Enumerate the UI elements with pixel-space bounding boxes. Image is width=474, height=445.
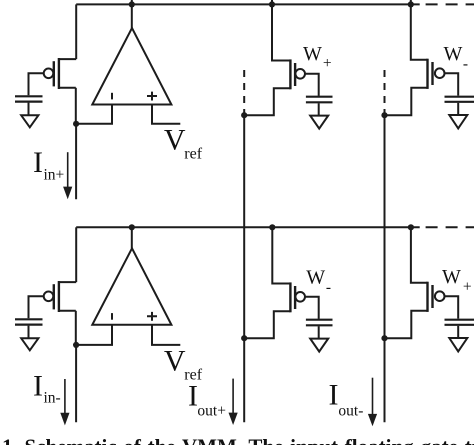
svg-text:+: + — [323, 55, 332, 72]
ground (C2) — [310, 116, 328, 129]
arrow: Iout+ current direction — [229, 379, 238, 425]
wire: Iout+ column — [243, 113, 245, 422]
wire: rail-1 dot down to W+ transistor M2 source — [272, 4, 290, 60]
arrow: Iin- current direction — [60, 379, 69, 425]
wire: C1 to ground — [28, 103, 30, 116]
wire: M2 gate to capacitor C2 — [305, 74, 319, 96]
wire: C4 to ground — [28, 326, 30, 339]
wire: U1 inverting input to node IN1 — [79, 105, 112, 124]
svg-text:-: - — [326, 279, 331, 296]
ground (C4) — [21, 338, 38, 350]
node: rail-2 junction dot (op-amp) — [129, 224, 135, 230]
node: Iout+ / M2 drain junction dot — [241, 112, 247, 118]
svg-text:V: V — [164, 124, 186, 157]
wire: row-2 rail dashed continuation — [426, 226, 474, 228]
svg-text:W: W — [303, 43, 322, 65]
wire: rail-1 to input transistor M1 source — [75, 4, 77, 59]
svg-text:out+: out+ — [197, 402, 226, 419]
node: Iout- / M3 drain junction dot — [381, 112, 387, 118]
svg-text:W: W — [444, 43, 463, 65]
arrow: Iout- current direction — [368, 378, 377, 427]
wire: Iout- column dashed top — [384, 70, 386, 113]
wire: row-1 rail dashed continuation — [426, 3, 474, 5]
wire: Iout- column — [384, 113, 386, 422]
op-amp U1 (row 1, output points up) — [92, 28, 171, 105]
svg-text:+: + — [463, 278, 472, 295]
svg-text:W: W — [306, 266, 325, 288]
ground (C5) — [310, 339, 328, 352]
capacitor C4 — [15, 319, 43, 324]
wire: M5 gate to capacitor C5 — [305, 297, 319, 319]
node: rail-1 junction dot (op-amp) — [129, 1, 135, 7]
wire: U1 non-inverting input to Vref — [152, 105, 180, 124]
transistor M1 (row-1 input pFET, gate left) — [44, 58, 76, 89]
wire: row-2 drain rail (solid) — [76, 226, 420, 228]
transistor M3 (row-1 W- cell, gate right) — [428, 59, 445, 89]
svg-text:I: I — [33, 369, 43, 402]
wire: C5 to ground — [318, 326, 320, 338]
node: Iout- / M6 drain junction dot — [381, 335, 387, 341]
capacitor C6 — [445, 320, 474, 325]
svg-text:1. Schematic of the VMM. The i: 1. Schematic of the VMM. The input float… — [2, 435, 474, 445]
wire: M1 gate to capacitor C1 — [29, 73, 44, 95]
node: Iout+ / M5 drain junction dot — [241, 335, 247, 341]
wire: C2 to ground — [318, 103, 320, 115]
wire: M4 drain down to node IN2 — [75, 311, 77, 345]
wire: input line Iin+ — [75, 124, 77, 199]
transistor M6 (row-2 W+ cell, gate right) — [428, 282, 445, 312]
op-amp U2 (row 2, output points up) — [92, 248, 171, 324]
wire: rail-2 dot down to W+ transistor M6 source — [411, 227, 428, 282]
node: rail-2 junction dot (W+ source) — [408, 224, 414, 230]
wire: U2 inverting input to node IN2 — [79, 325, 112, 345]
svg-text:-: - — [463, 56, 468, 73]
capacitor C2 — [306, 97, 333, 103]
svg-text:I: I — [33, 146, 43, 179]
node: rail-1 junction dot (W+ source) — [269, 1, 275, 7]
node: IN2 junction dot — [73, 342, 79, 348]
wire: rail-2 dot to op-amp U2 apex — [131, 227, 133, 248]
capacitor C1 — [15, 96, 43, 101]
wire: row-1 rail stub up at node A1 — [131, 0, 133, 4]
wire: rail-2 dot down to W- transistor M5 source — [272, 227, 290, 283]
svg-text:in-: in- — [44, 390, 61, 407]
wire: M4 gate to capacitor C4 — [29, 296, 44, 318]
svg-text:out-: out- — [338, 402, 363, 419]
node: IN1 junction dot — [73, 121, 79, 127]
node: rail-1 junction dot (W- source) — [408, 1, 414, 7]
ground (C1) — [21, 115, 38, 127]
wire: M2 drain to Iout+ column — [247, 88, 290, 115]
wire: M3 gate to capacitor C3 — [444, 73, 458, 95]
transistor M2 (row-1 W+ cell, gate right) — [290, 59, 305, 89]
svg-text:W: W — [442, 266, 461, 288]
ground (C6) — [449, 338, 467, 351]
svg-text:in+: in+ — [44, 167, 65, 184]
wire: rail-1 dot to op-amp U1 apex — [131, 4, 133, 28]
wire: M5 drain to Iout+ column — [247, 311, 290, 338]
wire: rail-2 to input transistor M4 source — [75, 227, 77, 282]
wire: M3 drain to Iout- column — [387, 88, 428, 115]
wire: M6 drain to Iout- column — [387, 311, 428, 338]
ground (C3) — [449, 115, 467, 128]
wire: rail-1 dot down to W- transistor M3 source — [411, 4, 428, 59]
wire: row-1 rail stub up at node C1 — [410, 0, 412, 4]
wire: M6 gate to capacitor C6 — [444, 296, 458, 318]
node: rail-2 junction dot (W- source) — [269, 224, 275, 230]
wire: C3 to ground — [457, 103, 459, 115]
svg-text:ref: ref — [184, 146, 202, 163]
wire: M1 drain down to node IN1 — [75, 88, 77, 124]
wire: C6 to ground — [457, 326, 459, 338]
capacitor C5 — [306, 320, 333, 326]
transistor M5 (row-2 W- cell, gate right) — [290, 282, 305, 312]
wire: row-1 rail stub up at node B1 — [271, 0, 273, 4]
capacitor C3 — [445, 97, 474, 102]
arrow: Iin+ current direction — [63, 152, 72, 199]
svg-text:V: V — [164, 344, 186, 377]
wire: Iout+ column dashed top — [243, 70, 245, 113]
wire: input line Iin- — [75, 345, 77, 422]
wire: row-1 drain rail (solid) — [76, 3, 420, 5]
transistor M4 (row-2 input pFET, gate left) — [44, 281, 76, 312]
wire: U2 non-inverting input to Vref — [152, 325, 180, 345]
svg-text:I: I — [329, 378, 339, 411]
